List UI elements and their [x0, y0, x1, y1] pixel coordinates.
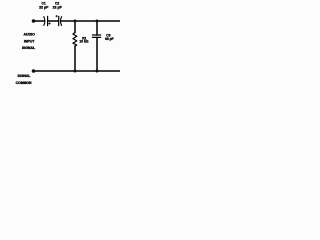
svg-text:AUDIO: AUDIO [24, 32, 36, 36]
wire C3 bottom lead [96, 37, 98, 71]
capacitor C3 [92, 35, 100, 37]
wire top rail right segment [61, 20, 120, 22]
node signal common terminal [32, 69, 36, 73]
node junction top R1 [74, 20, 77, 23]
capacitor C1 [44, 16, 51, 25]
resistor R1 [73, 33, 77, 47]
wire top rail left segment [34, 20, 44, 22]
svg-text:22 µF: 22 µF [39, 6, 49, 10]
wire R1 top lead [74, 21, 76, 33]
node junction bottom R1 [74, 70, 77, 73]
svg-text:SIGNAL: SIGNAL [17, 74, 30, 78]
node junction bottom C3 [96, 70, 99, 73]
svg-text:22 µF: 22 µF [53, 6, 63, 10]
wire top rail middle segment [48, 20, 59, 22]
svg-text:10 kΩ: 10 kΩ [79, 39, 88, 43]
wire bottom rail [34, 70, 120, 72]
wire R1 bottom lead [74, 46, 76, 71]
svg-text:INPUT: INPUT [24, 39, 35, 43]
capacitor C2 [56, 15, 62, 25]
svg-text:68 pF: 68 pF [105, 37, 114, 41]
wire C3 top lead [96, 21, 98, 35]
node audio input terminal [32, 19, 36, 23]
node junction top C3 [96, 20, 99, 23]
svg-text:SIGNAL: SIGNAL [22, 46, 36, 50]
svg-text:COMMON: COMMON [16, 81, 32, 85]
